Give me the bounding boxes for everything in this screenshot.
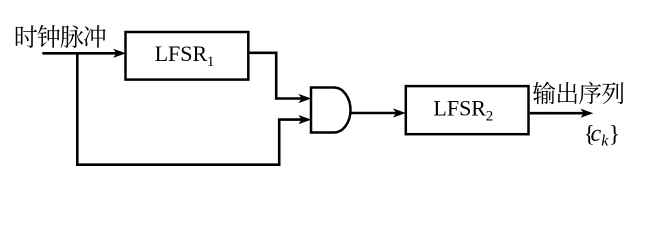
svg-text:LFSR: LFSR	[155, 41, 208, 66]
wire AND gate output to LFSR2	[351, 108, 406, 117]
svg-text:1: 1	[207, 54, 215, 70]
wire LFSR1 output to AND gate upper input	[250, 53, 312, 103]
svg-text:2: 2	[486, 109, 494, 125]
block LFSR1	[126, 32, 249, 80]
label 输出序列 (output sequence)	[533, 82, 624, 105]
block LFSR2	[406, 86, 529, 134]
wire clock feedback to AND gate lower input	[77, 53, 311, 164]
svg-text:LFSR: LFSR	[433, 95, 486, 120]
wire clock input	[42, 49, 126, 58]
AND gate U1	[311, 88, 350, 133]
svg-text:}: }	[609, 121, 620, 146]
svg-text:c: c	[591, 121, 602, 147]
label 时钟脉冲 (clock pulse)	[16, 25, 106, 48]
wire LFSR2 output	[530, 109, 594, 118]
label {ck} output sequence symbol	[584, 121, 620, 150]
